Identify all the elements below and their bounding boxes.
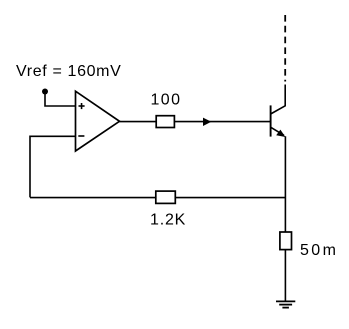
svg-text:1.2K: 1.2K: [150, 211, 186, 228]
svg-text:50m: 50m: [300, 242, 338, 259]
svg-text:100: 100: [151, 92, 182, 109]
svg-text:Vref = 160mV: Vref = 160mV: [16, 63, 121, 80]
